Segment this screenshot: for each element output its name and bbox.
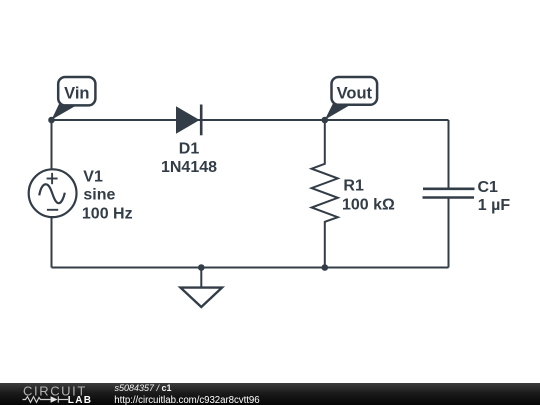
svg-text:100 kΩ: 100 kΩ (342, 196, 395, 213)
svg-text:R1: R1 (343, 177, 364, 194)
svg-text:1N4148: 1N4148 (161, 159, 217, 176)
svg-text:1 µF: 1 µF (478, 197, 511, 214)
svg-text:http://circuitlab.com/c932ar8c: http://circuitlab.com/c932ar8cvtt96 (114, 395, 259, 405)
svg-text:sine: sine (83, 187, 115, 204)
svg-text:C1: C1 (478, 179, 499, 196)
svg-text:s5084357 / c1: s5084357 / c1 (115, 383, 172, 393)
svg-text:Vout: Vout (337, 84, 373, 102)
svg-text:Vin: Vin (64, 84, 89, 102)
svg-text:100 Hz: 100 Hz (82, 205, 133, 222)
svg-text:LAB: LAB (68, 395, 92, 405)
svg-text:D1: D1 (179, 140, 200, 157)
svg-text:V1: V1 (83, 169, 103, 186)
